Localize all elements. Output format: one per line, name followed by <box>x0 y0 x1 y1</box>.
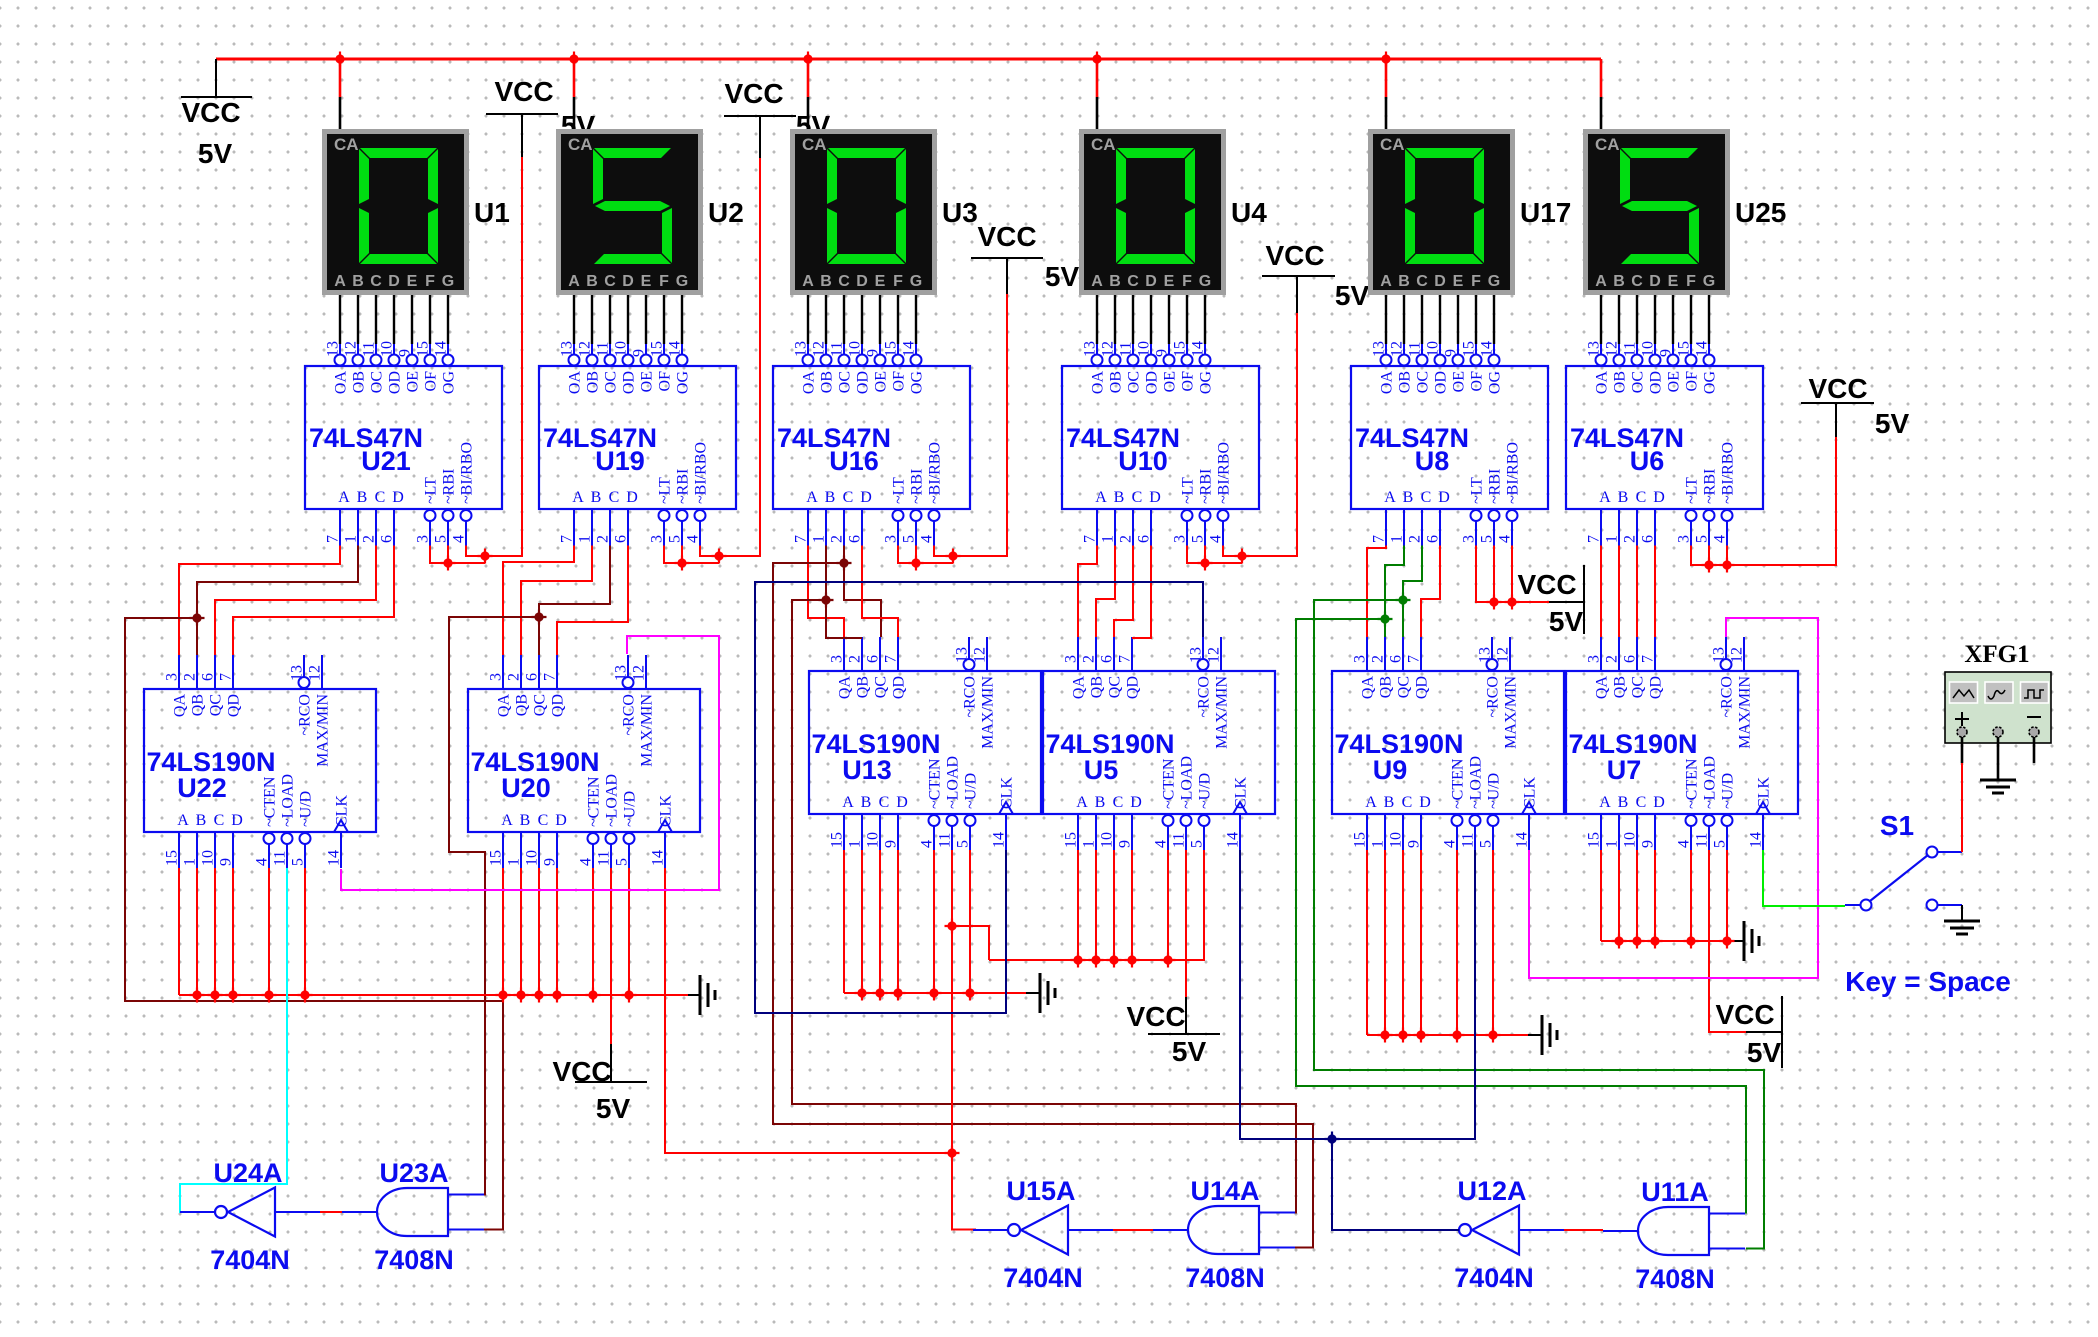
svg-text:B: B <box>352 273 364 290</box>
svg-text:11: 11 <box>1407 342 1424 357</box>
svg-text:QB: QB <box>1612 676 1629 698</box>
svg-text:7: 7 <box>883 655 900 663</box>
wire U21.A to U22.QA <box>179 546 340 656</box>
svg-text:U10: U10 <box>1118 446 1168 476</box>
svg-text:~U/D: ~U/D <box>1197 773 1214 809</box>
VCC symbol V5 <box>1262 240 1369 313</box>
VCC symbol V8 (rotated) <box>1517 565 1584 637</box>
svg-text:1: 1 <box>847 840 864 848</box>
svg-text:7: 7 <box>325 535 342 543</box>
svg-text:QA: QA <box>1594 676 1611 700</box>
svg-text:OB: OB <box>585 371 602 393</box>
svg-text:6: 6 <box>613 535 630 543</box>
svg-text:QA: QA <box>1071 676 1088 700</box>
VCC symbol V1 <box>181 59 252 169</box>
svg-text:D: D <box>231 812 243 829</box>
junction U9 bus <box>1378 1028 1393 1043</box>
svg-text:OA: OA <box>801 371 818 395</box>
svg-text:C: C <box>1113 794 1124 811</box>
svg-text:10: 10 <box>1136 341 1153 357</box>
svg-text:OG: OG <box>1487 371 1504 395</box>
svg-text:6: 6 <box>1425 535 1442 543</box>
svg-text:~LT: ~LT <box>1469 477 1486 504</box>
ground (XFG1 common) <box>1980 780 2016 793</box>
svg-text:~RBI: ~RBI <box>675 469 692 504</box>
svg-text:3: 3 <box>883 535 900 543</box>
svg-text:U23A: U23A <box>379 1158 448 1188</box>
svg-text:6: 6 <box>200 673 217 681</box>
svg-text:B: B <box>1384 794 1395 811</box>
junction U7 bus <box>1630 934 1645 949</box>
svg-text:OD: OD <box>1433 371 1450 394</box>
svg-text:~U/D: ~U/D <box>298 791 315 827</box>
svg-text:OB: OB <box>1397 371 1414 393</box>
svg-text:B: B <box>1114 489 1125 506</box>
svg-text:OG: OG <box>909 371 926 395</box>
svg-text:VCC: VCC <box>724 78 783 109</box>
svg-text:U5: U5 <box>1084 755 1119 785</box>
svg-text:7404N: 7404N <box>210 1245 290 1275</box>
svg-text:13: 13 <box>559 341 576 357</box>
svg-text:D: D <box>860 489 872 506</box>
svg-text:QA: QA <box>496 694 513 718</box>
svg-text:5V: 5V <box>198 138 233 169</box>
wires display U1 segment pins <box>339 295 341 344</box>
inverter U24A (7404N) <box>180 1158 320 1275</box>
svg-text:~RBI: ~RBI <box>1487 469 1504 504</box>
svg-text:13: 13 <box>1477 647 1494 663</box>
svg-text:4: 4 <box>254 858 271 866</box>
svg-text:OB: OB <box>1108 371 1125 393</box>
wire U16.B to U13.QB (net to U14A) <box>826 546 862 639</box>
wire U8 lamp-test tie net <box>1476 546 1549 603</box>
wire U16.C to U13.QC (net to U14A) <box>844 546 881 638</box>
svg-text:1: 1 <box>182 858 199 866</box>
svg-text:13: 13 <box>954 647 971 663</box>
svg-text:4: 4 <box>919 840 936 848</box>
svg-text:OE: OE <box>405 371 422 392</box>
svg-text:5: 5 <box>614 858 631 866</box>
svg-text:QC: QC <box>1396 676 1413 698</box>
svg-text:14: 14 <box>1190 341 1207 357</box>
svg-text:7: 7 <box>1406 655 1423 663</box>
svg-text:13: 13 <box>793 341 810 357</box>
junction U5 bus <box>1125 953 1140 968</box>
svg-text:1: 1 <box>1100 535 1117 543</box>
svg-text:OC: OC <box>1126 371 1143 393</box>
svg-text:3: 3 <box>1586 655 1603 663</box>
svg-text:6: 6 <box>1099 655 1116 663</box>
svg-text:B: B <box>1095 794 1106 811</box>
svg-text:B: B <box>1618 489 1629 506</box>
svg-text:7: 7 <box>559 535 576 543</box>
svg-text:B: B <box>357 489 368 506</box>
svg-text:3: 3 <box>415 535 432 543</box>
junction U5 bus <box>1107 953 1122 968</box>
svg-text:G: G <box>1703 273 1715 290</box>
wires display U2 segment pins <box>573 295 575 344</box>
svg-text:2: 2 <box>1081 655 1098 663</box>
svg-text:B: B <box>1613 273 1625 290</box>
wire U16.D to U13.QD <box>862 546 898 638</box>
wires display U25 segment pins <box>1600 295 1602 344</box>
svg-text:QA: QA <box>172 694 189 718</box>
svg-text:QC: QC <box>1107 676 1124 698</box>
svg-text:F: F <box>1471 273 1481 290</box>
svg-text:13: 13 <box>613 665 630 681</box>
svg-text:CA: CA <box>1380 135 1405 154</box>
svg-text:14: 14 <box>1479 341 1496 357</box>
svg-text:A: A <box>568 273 580 290</box>
svg-text:2: 2 <box>1604 655 1621 663</box>
svg-text:15: 15 <box>1352 832 1369 848</box>
svg-text:QC: QC <box>873 676 890 698</box>
junction U9 bus <box>1450 1028 1465 1043</box>
junction ground bus <box>514 988 529 1003</box>
svg-text:12: 12 <box>1100 341 1117 357</box>
junction U5 bus <box>1089 953 1104 968</box>
wire U10.D to U5.QD <box>1132 546 1151 639</box>
wire U19.C to U20.QC (net to U23A) <box>539 546 610 656</box>
svg-text:4: 4 <box>1208 535 1225 543</box>
svg-text:7: 7 <box>542 673 559 681</box>
svg-text:~LT: ~LT <box>423 477 440 504</box>
junction ground bus <box>532 988 547 1003</box>
svg-text:14: 14 <box>1225 832 1242 848</box>
wire U6.A to U7.QA <box>1600 546 1602 638</box>
wire U8.A to U9.QA <box>1367 546 1386 638</box>
wire U16 lamp-test/blanking tie net <box>898 546 953 564</box>
seven-segment display U17 <box>1368 129 1515 295</box>
svg-text:OF: OF <box>657 371 674 392</box>
svg-text:U16: U16 <box>829 446 879 476</box>
VCC symbol V7 <box>1126 997 1220 1067</box>
svg-text:C: C <box>1127 273 1139 290</box>
svg-text:OG: OG <box>441 371 458 395</box>
svg-text:~BI/RBO: ~BI/RBO <box>1720 442 1737 504</box>
svg-text:14: 14 <box>433 341 450 357</box>
svg-text:13: 13 <box>289 665 306 681</box>
svg-text:OE: OE <box>873 371 890 392</box>
wire U11A.out to U12A.in <box>1564 1229 1603 1231</box>
AND gate U11A (7408N) <box>1603 1177 1745 1294</box>
junction navy net <box>1325 1132 1340 1147</box>
svg-text:9: 9 <box>1443 349 1460 357</box>
svg-text:9: 9 <box>1640 840 1657 848</box>
svg-text:VCC: VCC <box>1715 999 1774 1030</box>
svg-text:5: 5 <box>1479 535 1496 543</box>
svg-text:3: 3 <box>1461 535 1478 543</box>
svg-text:1: 1 <box>811 535 828 543</box>
wire U21.B to U22.QB (net to U23A) <box>197 546 358 656</box>
VCC symbol V9 <box>552 1044 647 1124</box>
svg-text:~BI/RBO: ~BI/RBO <box>459 442 476 504</box>
svg-text:OA: OA <box>1379 371 1396 395</box>
junction ground bus <box>190 988 205 1003</box>
junction on anode bus <box>1379 52 1394 67</box>
svg-text:C: C <box>1132 489 1143 506</box>
svg-text:C: C <box>370 273 382 290</box>
svg-text:9: 9 <box>1406 840 1423 848</box>
svg-text:OD: OD <box>855 371 872 394</box>
svg-text:7408N: 7408N <box>1635 1264 1715 1294</box>
wire CA stub for display U4 <box>1096 59 1099 97</box>
svg-text:13: 13 <box>1188 647 1205 663</box>
svg-text:11: 11 <box>1171 833 1188 848</box>
svg-text:6: 6 <box>1388 655 1405 663</box>
svg-text:VCC: VCC <box>1126 1001 1185 1032</box>
svg-text:Key = Space: Key = Space <box>1845 966 2011 997</box>
svg-text:B: B <box>520 812 531 829</box>
svg-text:G: G <box>910 273 922 290</box>
svg-text:~BI/RBO: ~BI/RBO <box>693 442 710 504</box>
svg-text:7404N: 7404N <box>1454 1263 1534 1293</box>
svg-text:14: 14 <box>1748 832 1765 848</box>
74LS190N U7 <box>1566 637 1798 850</box>
wire U10 lamp-test/blanking tie net <box>1187 546 1242 564</box>
svg-text:12: 12 <box>631 665 648 681</box>
svg-text:U17: U17 <box>1520 197 1571 228</box>
svg-text:3: 3 <box>1352 655 1369 663</box>
junction U8.B net <box>1378 612 1393 627</box>
svg-text:~LT: ~LT <box>657 477 674 504</box>
svg-text:OF: OF <box>1469 371 1486 392</box>
wire CA stub for display U17 <box>1385 59 1388 97</box>
wire CA stub for display U3 <box>807 59 810 97</box>
junction U13 bus <box>891 986 906 1001</box>
svg-text:A: A <box>572 489 584 506</box>
svg-text:C: C <box>1402 794 1413 811</box>
svg-text:11: 11 <box>1622 342 1639 357</box>
junction U7 bus <box>1648 934 1663 949</box>
svg-text:~RCO: ~RCO <box>962 676 979 718</box>
svg-text:~RBI: ~RBI <box>1702 469 1719 504</box>
svg-text:B: B <box>1403 489 1414 506</box>
junction U5 bus <box>1161 953 1176 968</box>
svg-text:2: 2 <box>506 673 523 681</box>
svg-text:OA: OA <box>1090 371 1107 395</box>
svg-text:5V: 5V <box>1335 280 1370 311</box>
svg-text:QD: QD <box>226 694 243 717</box>
74LS47N U10 <box>1062 341 1259 546</box>
svg-text:OE: OE <box>639 371 656 392</box>
junction U10 tie <box>1198 556 1213 571</box>
74LS190N U9 <box>1332 637 1564 850</box>
junction ground bus <box>298 988 313 1003</box>
svg-text:12: 12 <box>577 341 594 357</box>
svg-text:14: 14 <box>901 341 918 357</box>
svg-text:5: 5 <box>901 535 918 543</box>
svg-text:~BI/RBO: ~BI/RBO <box>927 442 944 504</box>
svg-text:~CTEN: ~CTEN <box>1450 758 1467 809</box>
svg-text:~LOAD: ~LOAD <box>1179 756 1196 809</box>
AND gate U23A (7408N) <box>342 1158 484 1275</box>
svg-text:B: B <box>825 489 836 506</box>
wire U20.LOAD to VCC V9 <box>610 868 612 1044</box>
svg-text:A: A <box>334 273 346 290</box>
svg-text:E: E <box>1164 273 1175 290</box>
wire U5.RCO to U13.CLK (navy) <box>755 582 1203 1013</box>
wire U6.C to U7.QC <box>1636 546 1638 638</box>
junction ground bus <box>496 988 511 1003</box>
svg-text:OC: OC <box>369 371 386 393</box>
svg-text:~LT: ~LT <box>891 477 908 504</box>
svg-text:4: 4 <box>1153 840 1170 848</box>
wire U23A.out to U24A.in <box>320 1211 342 1213</box>
svg-text:5V: 5V <box>1747 1037 1782 1068</box>
svg-text:5: 5 <box>1478 840 1495 848</box>
svg-text:3: 3 <box>1676 535 1693 543</box>
wire U15A output net (U13.LOAD / U20.CLK / U5 bus) <box>952 850 976 1230</box>
svg-text:15: 15 <box>415 341 432 357</box>
svg-text:~RCO: ~RCO <box>1196 676 1213 718</box>
svg-text:9: 9 <box>542 858 559 866</box>
VCC symbol V6 <box>1801 373 1909 439</box>
svg-text:G: G <box>676 273 688 290</box>
wire U21.C to U22.QC <box>215 546 376 656</box>
svg-text:S1: S1 <box>1880 810 1914 841</box>
svg-text:14: 14 <box>667 341 684 357</box>
svg-text:A: A <box>1599 489 1611 506</box>
svg-text:15: 15 <box>164 850 181 866</box>
svg-text:MAX/MIN: MAX/MIN <box>1214 676 1231 749</box>
ground (U7 bus) <box>1744 921 1759 961</box>
svg-text:10: 10 <box>524 850 541 866</box>
junction U8 tie <box>1487 595 1502 610</box>
svg-text:D: D <box>622 273 634 290</box>
svg-text:U15A: U15A <box>1006 1176 1075 1206</box>
svg-text:3: 3 <box>649 535 666 543</box>
svg-text:CA: CA <box>1595 135 1620 154</box>
74LS190N U20 <box>468 655 700 868</box>
svg-text:~LOAD: ~LOAD <box>1468 756 1485 809</box>
seven-segment display U3 <box>790 129 937 295</box>
wire VCC anode bus (top) <box>216 58 1601 61</box>
svg-text:~CTEN: ~CTEN <box>1684 758 1701 809</box>
svg-text:2: 2 <box>829 535 846 543</box>
svg-text:5: 5 <box>433 535 450 543</box>
junction U15A net <box>945 919 960 934</box>
svg-text:~LT: ~LT <box>1684 477 1701 504</box>
svg-text:C: C <box>538 812 549 829</box>
svg-text:XFG1: XFG1 <box>1964 641 2029 668</box>
wire U24A output to U22.LOAD (cyan) <box>180 868 287 1212</box>
svg-text:U13: U13 <box>842 755 892 785</box>
wire U8.C to U9.QC (net to U11A) <box>1403 546 1422 638</box>
svg-text:2: 2 <box>847 655 864 663</box>
junction U9 bus <box>1396 1028 1411 1043</box>
junction U13 bus <box>873 986 888 1001</box>
junction U19 tie <box>675 556 690 571</box>
wire U9 ground bus <box>1366 850 1368 1035</box>
svg-text:7404N: 7404N <box>1003 1263 1083 1293</box>
svg-text:7: 7 <box>218 673 235 681</box>
svg-text:OE: OE <box>1451 371 1468 392</box>
junction on anode bus <box>567 52 582 67</box>
junction U6 tie <box>1702 558 1717 573</box>
wire XFG1 + output to S1 <box>1961 763 1963 852</box>
svg-text:QD: QD <box>1414 676 1431 699</box>
wire U6 lamp-test tie net <box>1691 437 1836 565</box>
svg-text:9: 9 <box>1154 349 1171 357</box>
svg-text:VCC: VCC <box>977 221 1036 252</box>
junction U5 bus <box>1071 953 1086 968</box>
svg-text:14: 14 <box>650 850 667 866</box>
wire XFG1 terminal stubs <box>1961 737 1964 763</box>
svg-text:U14A: U14A <box>1190 1176 1259 1206</box>
svg-text:~CTEN: ~CTEN <box>586 776 603 827</box>
svg-text:14: 14 <box>1514 832 1531 848</box>
svg-text:A: A <box>338 489 350 506</box>
wire U20.RCO to U22.CLK (magenta) <box>341 636 719 890</box>
svg-text:74LS47N: 74LS47N <box>1355 423 1469 453</box>
svg-text:MAX/MIN: MAX/MIN <box>1737 676 1754 749</box>
svg-text:CLK: CLK <box>1756 777 1773 809</box>
svg-text:9: 9 <box>1658 349 1675 357</box>
svg-text:QA: QA <box>1360 676 1377 700</box>
svg-text:5: 5 <box>667 535 684 543</box>
svg-text:D: D <box>856 273 868 290</box>
svg-text:CLK: CLK <box>1522 777 1539 809</box>
junction U13 bus <box>963 986 978 1001</box>
74LS47N U19 <box>539 341 736 546</box>
svg-text:10: 10 <box>379 341 396 357</box>
wire CA stub for display U1 <box>339 59 342 97</box>
svg-text:7: 7 <box>1371 535 1388 543</box>
svg-text:A: A <box>1076 794 1088 811</box>
svg-text:2: 2 <box>1118 535 1135 543</box>
svg-text:15: 15 <box>1063 832 1080 848</box>
svg-text:C: C <box>1636 794 1647 811</box>
wire U19.B to U20.QB <box>521 546 592 656</box>
wire bus to VCC V1 <box>215 59 217 97</box>
wire U7.RCO to U9.CLK (magenta) <box>1529 618 1818 978</box>
wire U21.D to U22.QD <box>233 546 394 656</box>
svg-text:5: 5 <box>1712 840 1729 848</box>
74LS190N U5 <box>1043 637 1275 850</box>
svg-text:6: 6 <box>524 673 541 681</box>
junction ground bus <box>208 988 223 1003</box>
svg-text:13: 13 <box>325 341 342 357</box>
svg-text:4: 4 <box>919 535 936 543</box>
wire U19.A to U20.QA <box>503 546 574 656</box>
svg-text:11: 11 <box>1118 342 1135 357</box>
svg-text:E: E <box>875 273 886 290</box>
svg-text:15: 15 <box>649 341 666 357</box>
svg-text:CA: CA <box>334 135 359 154</box>
svg-text:3: 3 <box>1172 535 1189 543</box>
svg-text:OD: OD <box>1648 371 1665 394</box>
svg-text:11: 11 <box>595 342 612 357</box>
ground (U9 bus) <box>1542 1015 1557 1055</box>
svg-text:5: 5 <box>1190 535 1207 543</box>
svg-text:A: A <box>842 794 854 811</box>
junction on anode bus <box>333 52 348 67</box>
svg-text:1: 1 <box>506 858 523 866</box>
svg-text:4: 4 <box>451 535 468 543</box>
svg-text:D: D <box>392 489 404 506</box>
junction U7 bus <box>1684 934 1699 949</box>
svg-text:QB: QB <box>190 694 207 716</box>
svg-text:D: D <box>626 489 638 506</box>
svg-text:U9: U9 <box>1373 755 1408 785</box>
svg-text:~RBI: ~RBI <box>1198 469 1215 504</box>
svg-text:B: B <box>820 273 832 290</box>
svg-text:7: 7 <box>1640 655 1657 663</box>
svg-text:3: 3 <box>1063 655 1080 663</box>
seven-segment display U4 <box>1079 129 1226 295</box>
VCC symbol V10 (rotated) <box>1715 996 1782 1068</box>
